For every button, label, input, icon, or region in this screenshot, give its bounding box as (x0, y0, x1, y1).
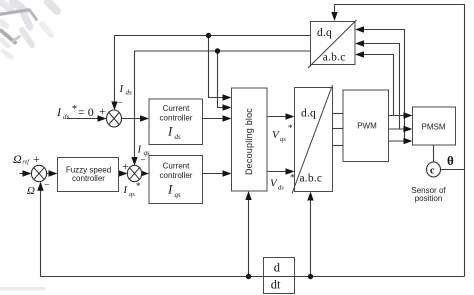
svg-text:Ω: Ω (13, 152, 22, 166)
svg-text:d: d (274, 261, 281, 275)
svg-text:−: − (118, 98, 124, 109)
svg-text:V: V (270, 178, 278, 190)
svg-text:−: − (140, 155, 146, 166)
svg-text:ds: ds (63, 113, 70, 121)
svg-text:qs: qs (129, 191, 135, 198)
svg-text:a.b.c: a.b.c (300, 173, 323, 185)
svg-text:dt: dt (271, 278, 281, 292)
svg-text:= 0: = 0 (78, 105, 94, 119)
svg-text:controller: controller (72, 174, 105, 183)
svg-text:−: − (44, 180, 50, 191)
svg-text:I: I (137, 144, 143, 156)
svg-text:ref: ref (23, 159, 31, 166)
svg-text:controller: controller (160, 114, 193, 123)
svg-text:qs: qs (175, 191, 182, 199)
svg-text:*: * (136, 181, 141, 191)
svg-text:PWM: PWM (357, 122, 377, 131)
svg-text:controller: controller (160, 171, 193, 180)
svg-text:d.q: d.q (301, 108, 316, 120)
svg-text:d.q: d.q (317, 27, 332, 39)
svg-text:+: + (33, 152, 40, 166)
svg-text:Ω: Ω (27, 185, 35, 197)
svg-text:*: * (290, 173, 295, 183)
svg-text:+: + (122, 159, 129, 173)
svg-text:I: I (119, 83, 125, 95)
svg-text:+: + (99, 104, 106, 118)
svg-text:θ: θ (447, 153, 454, 168)
svg-text:V: V (272, 129, 280, 141)
svg-text:Current: Current (163, 162, 190, 171)
svg-text:*: * (72, 104, 77, 115)
svg-text:Decoupling bloc: Decoupling bloc (244, 108, 254, 175)
svg-text:I: I (167, 182, 173, 197)
svg-text:I: I (56, 105, 62, 119)
svg-text:c: c (430, 166, 435, 177)
svg-text:I: I (123, 185, 128, 196)
svg-text:PMSM: PMSM (422, 123, 446, 132)
svg-text:qs: qs (280, 136, 286, 143)
svg-text:a.b.c: a.b.c (323, 52, 346, 64)
svg-text:position: position (415, 194, 443, 203)
svg-text:Current: Current (163, 104, 190, 113)
svg-text:ds: ds (175, 133, 182, 141)
svg-text:ds: ds (126, 89, 133, 97)
svg-text:*: * (288, 123, 293, 133)
svg-text:I: I (167, 124, 173, 139)
svg-text:ds: ds (278, 185, 284, 192)
